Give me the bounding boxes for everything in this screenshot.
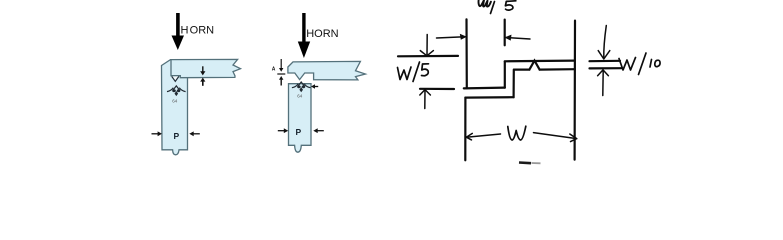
svg-text:P: P [296, 127, 302, 137]
svg-text:HORN: HORN [181, 24, 215, 36]
svg-text:64: 64 [172, 99, 178, 104]
svg-text:64: 64 [297, 94, 303, 99]
svg-text:P: P [174, 131, 180, 141]
svg-text:HORN: HORN [306, 28, 338, 40]
svg-text:A: A [272, 67, 276, 73]
